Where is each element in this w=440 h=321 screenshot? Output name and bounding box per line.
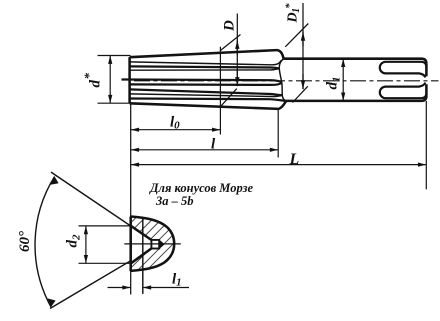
- flute line 6: [130, 89, 283, 95]
- drill tip: [159, 240, 165, 249]
- svg-text:3а – 5b: 3а – 5b: [155, 194, 194, 208]
- arc arrow bottom: [48, 298, 56, 307]
- flute line 1: [130, 60, 282, 64]
- flute line 5: [130, 83, 282, 85]
- svg-text:Для конусов Морзе: Для конусов Морзе: [149, 181, 253, 195]
- pilot hole: [151, 240, 159, 249]
- dimension D oblique extension bottom: [221, 89, 237, 107]
- top edge of cutting part: [130, 50, 284, 59]
- dimension l1 right tail: [143, 287, 189, 289]
- svg-text:60°: 60°: [17, 231, 33, 252]
- dimension l extension line: [277, 109, 279, 158]
- svg-text:l1: l1: [172, 272, 182, 289]
- dimension D arrows: [236, 40, 238, 55]
- dimension L extension line: [425, 101, 427, 189]
- svg-text:d*: d*: [81, 73, 104, 88]
- shank bottom edge: [286, 96, 426, 101]
- flute line 3: [130, 69, 280, 70]
- section: 60 deg lower construction line: [50, 248, 152, 308]
- dimension l line: [131, 149, 279, 151]
- dimension D1 oblique extension bottom: [293, 86, 308, 102]
- shank right face: [425, 64, 428, 96]
- flute line 8: [130, 99, 287, 101]
- svg-text:d1: d1: [325, 77, 343, 90]
- svg-text:D1*: D1*: [284, 3, 303, 24]
- dimension D extension (l0 line through body): [219, 47, 221, 135]
- flute line 4: [122, 80, 282, 83]
- section countersink void: [131, 226, 152, 263]
- tang slot lower finger: [380, 83, 426, 99]
- dimension d2 extension lines: [79, 226, 133, 263]
- countersink wall upper: [131, 226, 152, 240]
- dimension l1 left tail: [108, 287, 131, 289]
- flute line 7: [130, 94, 283, 97]
- svg-text:d2: d2: [65, 234, 83, 248]
- section centerline: [124, 243, 181, 245]
- flute line 2: [130, 66, 280, 68]
- dimension L line: [131, 164, 427, 166]
- countersink wall lower: [131, 248, 152, 263]
- projection line to section: [130, 103, 132, 294]
- main centerline: [134, 80, 439, 82]
- dimension l0 line: [131, 129, 221, 131]
- 60 deg dimension arc: [35, 177, 55, 308]
- bottom edge of cutting part: [130, 101, 287, 109]
- flute runout boundary: [279, 59, 286, 101]
- tang slot upper finger: [380, 62, 427, 78]
- arc arrow top: [50, 177, 58, 185]
- section hatch fill: [131, 217, 174, 271]
- dimension d2 line: [85, 226, 87, 263]
- dimension D1 arrows: [302, 32, 304, 46]
- dimension D1 oblique extension top: [285, 24, 308, 47]
- section margin line: [142, 218, 144, 294]
- svg-text:L: L: [289, 151, 300, 168]
- dimension D line: [236, 14, 238, 87]
- svg-text:l0: l0: [170, 115, 180, 132]
- section nose outline: [131, 217, 174, 271]
- dimension d* line: [109, 56, 111, 104]
- section: 60 deg upper construction line: [51, 172, 152, 240]
- dimension d* extension lines: [98, 56, 131, 104]
- dimension D oblique extension top: [220, 35, 240, 51]
- dimension D1 line: [302, 3, 304, 89]
- section front face: [129, 217, 132, 272]
- dimension d1 line: [342, 59, 344, 101]
- svg-text:D: D: [222, 20, 238, 32]
- reamer left end face: [128, 57, 131, 103]
- shank top edge: [284, 59, 427, 64]
